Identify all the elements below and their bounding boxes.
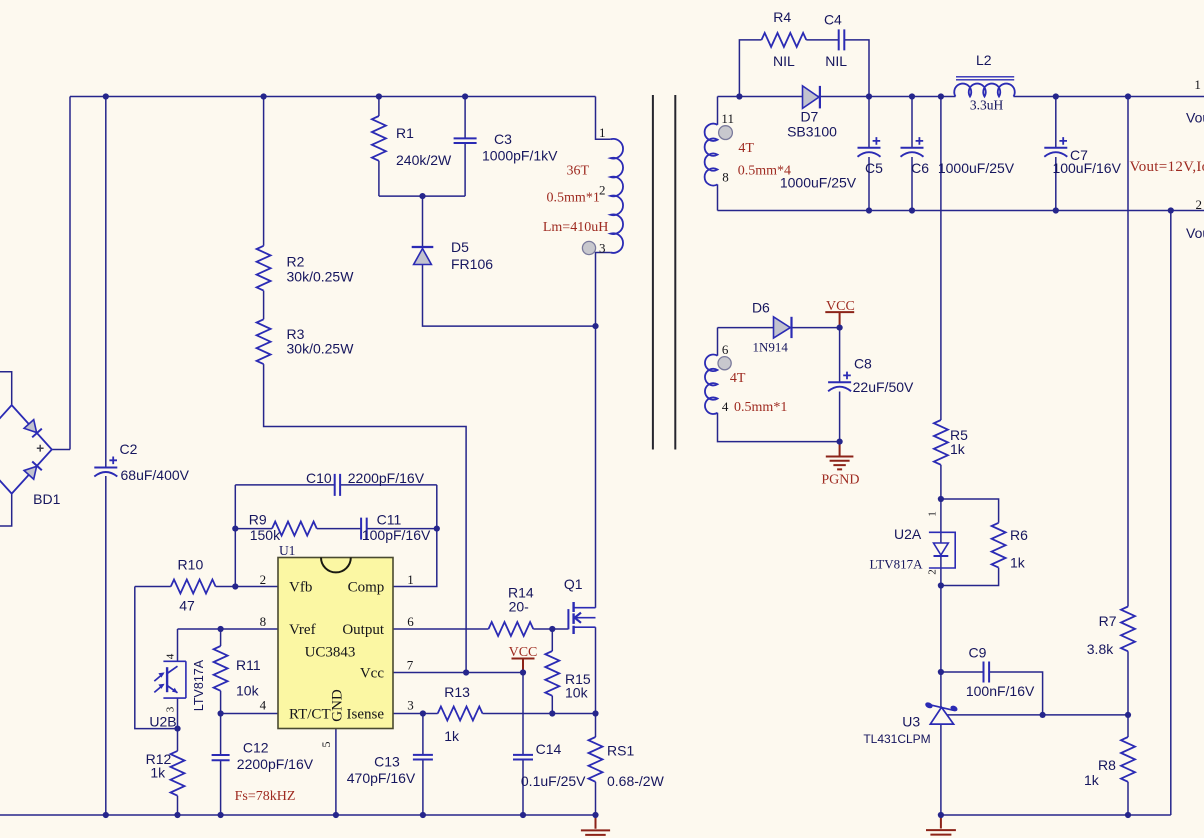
junction C11 right (434, 526, 440, 532)
svg-text:Q1: Q1 (564, 576, 583, 592)
wire C10 row right (235, 484, 334, 486)
wire aux winding bottom lead (718, 413, 840, 442)
svg-text:Fs=78kHZ: Fs=78kHZ (235, 789, 296, 804)
wire pin1 Comp loop right (393, 485, 437, 587)
wire C12 lower lead (220, 760, 222, 815)
svg-text:100pF/16V: 100pF/16V (362, 527, 431, 543)
resistor R2 (257, 246, 271, 291)
svg-text:SB3100: SB3100 (787, 124, 837, 140)
resistor R13 (438, 707, 483, 721)
svg-text:R7: R7 (1099, 613, 1117, 629)
svg-text:2: 2 (599, 182, 606, 197)
svg-text:C11: C11 (377, 511, 402, 527)
junction top rail / R1 (376, 93, 382, 99)
wire primary pin3 to Q1 drain (596, 253, 611, 608)
svg-text:1000pF/1kV: 1000pF/1kV (482, 148, 558, 164)
junction ground / C2 (103, 812, 109, 818)
capacitor C11 (361, 518, 367, 540)
svg-text:RT/CT: RT/CT (289, 707, 331, 723)
wire R1 top lead (378, 97, 380, 117)
wire R2 top lead (263, 97, 265, 246)
svg-text:FR106: FR106 (451, 256, 493, 272)
wire R11 bottom lead (220, 691, 222, 714)
svg-text:Vout+: Vout+ (1186, 109, 1204, 125)
power symbol VCC (primary) (512, 659, 535, 673)
wire TL431 ref row (947, 714, 1128, 716)
capacitor C9 (984, 662, 990, 683)
svg-text:U2B: U2B (149, 714, 176, 730)
svg-text:D5: D5 (451, 239, 469, 255)
svg-text:3: 3 (165, 706, 177, 712)
resistor R14 (489, 622, 534, 636)
svg-text:11: 11 (721, 111, 734, 126)
svg-text:47: 47 (179, 598, 195, 614)
junction R7/R8/ref (1125, 712, 1131, 718)
junction Vcc row / R3 feed (463, 669, 469, 675)
junction Vcc row / C14 (520, 669, 526, 675)
svg-text:VCC: VCC (509, 645, 538, 660)
wire pin7 Vcc row (393, 672, 523, 674)
junction Vout- / C6 (909, 207, 915, 213)
wire snubber R4C4 left leg (739, 40, 761, 97)
svg-text:3: 3 (407, 698, 414, 713)
wire R8 bottom lead (1127, 782, 1129, 815)
wire R1 bottom lead (378, 161, 380, 196)
wire C7 top lead (1055, 97, 1057, 148)
svg-text:6: 6 (407, 614, 414, 629)
wire C6 bottom lead (911, 157, 913, 211)
svg-text:1: 1 (927, 511, 939, 517)
svg-text:C12: C12 (243, 739, 269, 755)
capacitor C7 (1044, 147, 1067, 149)
svg-text:1k: 1k (1084, 772, 1100, 788)
svg-text:Output: Output (342, 622, 385, 638)
svg-text:36T: 36T (567, 164, 590, 179)
svg-text:Vref: Vref (289, 622, 316, 638)
inductor L2 (954, 84, 1015, 97)
capacitor C13 (413, 755, 433, 760)
svg-text:C2: C2 (120, 441, 138, 457)
capacitor C5 (858, 147, 881, 149)
svg-text:C4: C4 (824, 12, 842, 28)
resistor R9 (272, 522, 317, 536)
wire secondary Vout+ rail left (718, 96, 956, 98)
polarity dot primary pin3 (582, 241, 595, 254)
wire C5 top lead (868, 97, 870, 148)
svg-text:L2: L2 (976, 52, 992, 68)
svg-text:RS1: RS1 (607, 742, 634, 758)
wire R9-C11 link (317, 528, 361, 530)
junction drain node / D5 (592, 323, 598, 329)
wire C14 lower lead (522, 760, 524, 816)
wire U2A to TL431 cathode (940, 586, 942, 708)
svg-text:R10: R10 (178, 557, 204, 573)
junction gate node (549, 626, 555, 632)
svg-text:2: 2 (1196, 197, 1203, 212)
svg-text:TL431CLPM: TL431CLPM (863, 732, 930, 746)
svg-text:30k/0.25W: 30k/0.25W (287, 341, 355, 357)
resistor R15 (545, 651, 559, 696)
wire R12 bottom lead (177, 796, 179, 815)
wire R15 top lead (551, 629, 553, 651)
junction aux return / C8 (837, 439, 843, 445)
capacitor C12 (212, 755, 230, 760)
wire C9 right loop (989, 672, 1043, 715)
resistor R12 (171, 751, 185, 796)
svg-text:C5: C5 (865, 160, 883, 176)
junction C9 / ref row (1040, 712, 1046, 718)
svg-text:BD1: BD1 (33, 491, 60, 507)
resistor R6 (992, 523, 1006, 568)
svg-text:68uF/400V: 68uF/400V (121, 467, 190, 483)
junction Vref/R11 (218, 626, 224, 632)
svg-text:20-: 20- (509, 599, 530, 615)
svg-text:1000uF/25V: 1000uF/25V (938, 160, 1015, 176)
resistor R7 (1121, 607, 1135, 652)
junction Vout+ / C5 (866, 93, 872, 99)
svg-text:UC3843: UC3843 (305, 645, 356, 661)
svg-text:D6: D6 (752, 300, 770, 316)
diode D5 (412, 246, 434, 248)
svg-text:Vcc: Vcc (360, 666, 384, 682)
svg-text:U1: U1 (279, 543, 296, 558)
ground symbol PGND (826, 442, 854, 470)
svg-text:10k: 10k (565, 684, 589, 700)
wire primary ground rail (0, 814, 596, 816)
svg-text:240k/2W: 240k/2W (396, 152, 452, 168)
wire secondary winding top lead (717, 97, 719, 125)
svg-text:VCC: VCC (826, 299, 855, 314)
svg-text:U2A: U2A (894, 526, 922, 542)
wire R14 to Q1 gate (533, 628, 568, 630)
resistor R3 (257, 319, 271, 364)
wire R9 left lead (235, 528, 272, 530)
svg-text:7: 7 (407, 657, 414, 672)
svg-text:1: 1 (1194, 77, 1201, 92)
resistor R4 (762, 33, 807, 47)
svg-text:GND: GND (330, 689, 346, 722)
capacitor C8 (828, 381, 851, 383)
wire aux winding top lead (717, 328, 719, 356)
svg-text:2200pF/16V: 2200pF/16V (237, 756, 314, 772)
svg-text:C14: C14 (536, 741, 562, 757)
wire pin4 RT/CT row (221, 713, 278, 715)
wire R7 bottom lead (1127, 651, 1129, 715)
junction snubber / D5 (419, 193, 425, 199)
junction secondary ground / R8 (1125, 812, 1131, 818)
wire Vout- right vertical (1170, 211, 1172, 816)
wire C2 branch upper (105, 97, 107, 468)
wire C13 upper lead (422, 714, 424, 755)
wire R10 left lead (135, 586, 171, 588)
svg-text:C3: C3 (494, 131, 512, 147)
junction ground / R12 (174, 812, 180, 818)
svg-text:C9: C9 (969, 645, 987, 661)
transformer core lines (653, 95, 675, 450)
svg-text:U3: U3 (902, 714, 920, 730)
wire R15 bottom lead (551, 696, 553, 714)
junction Vout- / C5 (866, 207, 872, 213)
wire C5 bottom lead (868, 157, 870, 211)
resistor R5 (934, 420, 948, 465)
junction secondary ground / TL431 (938, 812, 944, 818)
wire C10 row left (340, 484, 437, 486)
wire secondary ground rail (941, 814, 1171, 816)
wire R10 left leg down (135, 587, 178, 729)
svg-text:4: 4 (260, 698, 267, 713)
junction top rail / C2 (103, 93, 109, 99)
wire secondary winding bottom lead (717, 184, 719, 210)
junction R15 bottom (549, 710, 555, 716)
junction ground / C12 (218, 812, 224, 818)
svg-text:0.1uF/25V: 0.1uF/25V (521, 773, 586, 789)
wire U2B emitter down (177, 698, 179, 729)
wire pin6 Output stub (393, 628, 489, 630)
svg-text:Vout-: Vout- (1186, 225, 1204, 241)
svg-text:6: 6 (722, 342, 729, 357)
wire C11 right lead (367, 528, 437, 530)
svg-text:5: 5 (319, 742, 333, 748)
svg-text:4T: 4T (730, 371, 746, 386)
svg-text:Vout=12V,Iout=2A: Vout=12V,Iout=2A (1130, 159, 1204, 175)
junction ground / U1 pin5 (333, 812, 339, 818)
wire C13 lower lead (422, 760, 424, 816)
wire C2 branch lower (105, 476, 107, 815)
svg-text:4: 4 (722, 399, 729, 414)
junction U2A/R6 bottom (938, 582, 944, 588)
wire RS1 top lead (595, 714, 597, 738)
wire snubber bottom link (379, 195, 465, 197)
transformer secondary winding (pins 11-8) (705, 124, 718, 186)
svg-text:2: 2 (927, 569, 939, 575)
svg-text:2200pF/16V: 2200pF/16V (348, 470, 425, 486)
svg-text:C8: C8 (854, 355, 872, 371)
wire C7 bottom lead (1055, 157, 1057, 211)
wire HV+ top rail (primary) (70, 96, 596, 98)
svg-text:100nF/16V: 100nF/16V (966, 683, 1035, 699)
svg-text:R1: R1 (396, 125, 414, 141)
polarity dot secondary pin11 (719, 126, 733, 140)
junction C9 top (938, 669, 944, 675)
junction top rail / C3 (462, 93, 468, 99)
svg-text:2: 2 (260, 572, 267, 587)
junction pin2 node (232, 583, 238, 589)
svg-text:R11: R11 (236, 657, 261, 673)
wire RS1 bottom lead (595, 782, 597, 815)
svg-text:1k: 1k (1010, 554, 1026, 570)
svg-text:LTV817A: LTV817A (192, 659, 206, 711)
wire R10 right lead (216, 586, 236, 588)
junction ground / C14 (520, 812, 526, 818)
svg-text:8: 8 (260, 614, 267, 629)
wire C12 upper lead (220, 714, 222, 756)
wire C4 right leg (844, 40, 869, 97)
svg-text:3.8k: 3.8k (1087, 641, 1114, 657)
svg-text:R2: R2 (287, 254, 305, 270)
svg-text:3: 3 (599, 241, 606, 256)
junction top rail / R2 (261, 93, 267, 99)
junction sense node / RS1 (592, 710, 598, 716)
svg-text:NIL: NIL (773, 53, 795, 69)
junction ground / RS1 (592, 812, 598, 818)
wire bridge + output stub (52, 449, 70, 451)
svg-text:0.68-/2W: 0.68-/2W (607, 773, 665, 789)
wire pin8 Vref row (178, 628, 279, 630)
wire left vertical from bridge + to top rail (69, 97, 71, 450)
optocoupler U2A (LED) (929, 532, 955, 568)
wire R12 top lead (177, 729, 179, 751)
bridge rectifier BD1 (0, 372, 12, 405)
wire R2-R3 link (263, 291, 265, 320)
svg-text:R9: R9 (249, 511, 267, 527)
wire R5 feedback tap (940, 97, 942, 421)
wire R7 tap from Vout+ (1127, 97, 1129, 607)
wire R4-C4 link (806, 39, 838, 41)
wire U1 GND pin5 (335, 729, 337, 816)
wire C9 left lead (941, 671, 984, 673)
junction R9 left (232, 526, 238, 532)
svg-text:8: 8 (722, 170, 729, 185)
svg-text:10k: 10k (236, 683, 260, 699)
svg-text:R4: R4 (773, 9, 791, 25)
transformer aux winding (pins 6-4) (705, 355, 718, 414)
svg-text:D7: D7 (800, 109, 818, 125)
svg-text:3.3uH: 3.3uH (970, 97, 1004, 112)
wire R3 bottom to VCC feed (264, 364, 467, 672)
junction Vout+ / R5 (938, 93, 944, 99)
wire U2A anode lead (940, 499, 942, 543)
wire R6 parallel loop (941, 499, 999, 523)
svg-text:R13: R13 (444, 684, 470, 700)
svg-text:4: 4 (165, 653, 177, 659)
svg-text:NIL: NIL (825, 53, 847, 69)
junction Vout+ / R4C4 left (736, 93, 742, 99)
resistor R1 (372, 116, 386, 161)
svg-text:150k: 150k (250, 527, 281, 543)
wire TL431 anode down (940, 724, 942, 815)
wire secondary Vout- rail (718, 210, 1204, 212)
wire D6 cathode to VCC node (792, 327, 840, 329)
wire C10 left vertical (234, 485, 236, 587)
capacitor C3 (454, 138, 477, 143)
svg-text:1: 1 (599, 125, 606, 140)
svg-text:30k/0.25W: 30k/0.25W (287, 269, 355, 285)
capacitor C2 (94, 467, 117, 469)
svg-text:4T: 4T (738, 141, 754, 156)
wire U2A cathode lead (940, 557, 942, 586)
svg-text:C10: C10 (306, 470, 332, 486)
svg-text:100uF/16V: 100uF/16V (1052, 160, 1121, 176)
capacitor C6 (901, 147, 924, 149)
wire C8 bottom lead (839, 392, 841, 442)
junction VCC node aux (837, 325, 843, 331)
wire R13 right to RS1 top (483, 713, 596, 715)
svg-text:1k: 1k (444, 728, 460, 744)
wire Q1 source down to sense node (595, 627, 597, 713)
svg-text:R6: R6 (1010, 527, 1028, 543)
svg-text:470pF/16V: 470pF/16V (347, 770, 416, 786)
wire C8 top lead (839, 328, 841, 383)
wire aux winding pin6 row (718, 327, 774, 329)
svg-text:LTV817A: LTV817A (870, 557, 924, 572)
transistor Q1 (N-MOSFET) (567, 609, 569, 629)
wire primary pin1 lead (596, 97, 611, 140)
svg-text:C6: C6 (911, 160, 929, 176)
svg-text:PGND: PGND (821, 473, 859, 488)
resistor R8 (1121, 737, 1135, 782)
diode D6 (774, 317, 791, 338)
wire pin2 Vfb stub (235, 586, 278, 588)
wire pin3 Isense stub (393, 713, 438, 715)
junction R5/R6/U2A (938, 496, 944, 502)
wire C6 top lead (911, 97, 913, 148)
power symbol VCC (aux) (825, 312, 854, 328)
wire Vref to U2B collector (177, 629, 179, 661)
svg-text:R8: R8 (1098, 757, 1116, 773)
svg-text:Isense: Isense (347, 707, 385, 723)
wire D5 anode to drain node (423, 265, 596, 327)
resistor R10 (171, 580, 216, 594)
resistor RS1 (589, 737, 603, 782)
polarity dot aux pin6 (718, 357, 731, 370)
wire C3 bottom lead (464, 143, 466, 196)
junction R12 top (174, 726, 180, 732)
shunt regulator U3 TL431 (930, 707, 953, 724)
wire R8 top lead (1127, 715, 1129, 737)
diode D7 (803, 86, 819, 109)
svg-text:22uF/50V: 22uF/50V (853, 379, 914, 395)
junction Isense / C13 (420, 710, 426, 716)
wire C14 upper lead (522, 673, 524, 755)
svg-text:0.5mm*1: 0.5mm*1 (734, 400, 787, 415)
wire C3 top lead (464, 97, 466, 139)
svg-text:1N914: 1N914 (753, 340, 789, 355)
svg-text:1: 1 (407, 572, 414, 587)
svg-text:1k: 1k (950, 441, 966, 457)
wire secondary Vout+ rail right (1014, 96, 1204, 98)
junction RT-CT/C12 (218, 710, 224, 716)
svg-text:0.5mm*1: 0.5mm*1 (547, 191, 600, 206)
svg-text:1000uF/25V: 1000uF/25V (780, 175, 857, 191)
svg-text:Comp: Comp (348, 580, 385, 596)
optocoupler U2B (phototransistor) (163, 661, 186, 698)
svg-text:Lm=410uH: Lm=410uH (543, 220, 608, 235)
junction Vout- / right drop (1168, 207, 1174, 213)
junction Vout+ / C7 (1053, 93, 1059, 99)
junction Vout+ / C6 (909, 93, 915, 99)
junction Vout+ / R7 (1125, 93, 1131, 99)
wire R5 bottom lead (940, 465, 942, 499)
svg-text:Vfb: Vfb (289, 580, 312, 596)
ground symbol (secondary) (926, 815, 956, 838)
resistor R11 (214, 646, 228, 691)
op-amp U1 UC3843 body (278, 558, 393, 729)
svg-text:C13: C13 (374, 754, 400, 770)
ground symbol (primary) (581, 815, 610, 838)
capacitor C14 (513, 755, 533, 760)
svg-text:1k: 1k (150, 765, 166, 781)
wire R6 bottom loop (941, 568, 999, 586)
transformer primary winding (36T) (611, 139, 623, 253)
capacitor C4 (839, 29, 845, 50)
junction ground / C13 (420, 812, 426, 818)
capacitor C10 (335, 474, 340, 496)
wire D5 cathode lead (422, 196, 424, 247)
junction Vout- / C7 (1053, 207, 1059, 213)
wire R11 top lead (220, 629, 222, 646)
